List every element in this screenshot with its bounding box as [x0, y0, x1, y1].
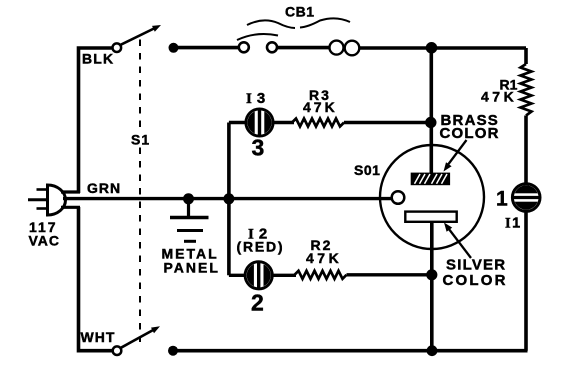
switch S1 dashed line	[139, 40, 141, 343]
wire left rail upper (BLK)	[79, 48, 112, 193]
svg-text:BLK: BLK	[82, 51, 114, 67]
plug prong top	[37, 188, 49, 191]
node dot bottom left	[168, 346, 178, 356]
wire GRN	[63, 197, 392, 200]
plug prong bottom	[37, 207, 49, 210]
brass contact (hatched)	[411, 173, 450, 186]
wire to lamp I3	[229, 121, 246, 124]
svg-text:PANEL: PANEL	[164, 260, 220, 276]
svg-text:CB1: CB1	[285, 4, 315, 20]
socket pin circle	[392, 191, 405, 204]
svg-text:S01: S01	[354, 162, 380, 178]
svg-text:COLOR: COLOR	[443, 272, 508, 289]
wire right rail to I1	[524, 116, 528, 184]
wire right rail top	[524, 48, 528, 64]
svg-text:1: 1	[496, 188, 508, 211]
wire mid rail lower	[430, 222, 434, 351]
node ground junction	[183, 193, 194, 204]
wire to CB1 contacts	[174, 46, 240, 50]
wire to lamp I2	[229, 274, 245, 277]
svg-text:SILVER: SILVER	[446, 257, 506, 274]
node dot after switch	[169, 43, 179, 53]
plug stub to BLK rail	[61, 190, 80, 193]
plug body	[48, 185, 66, 215]
switch S1 upper arm	[121, 28, 156, 45]
CB1 contact circle right	[267, 42, 277, 52]
wire lamp I2 to R2	[272, 274, 296, 277]
resistor R3	[292, 119, 344, 127]
CB1 brace arc upper	[247, 18, 350, 28]
wire bottom rail	[173, 349, 528, 353]
svg-text:COLOR: COLOR	[440, 125, 500, 142]
node branch junction	[223, 193, 234, 204]
svg-text:VAC: VAC	[29, 233, 61, 249]
resistor R2	[295, 271, 347, 279]
svg-text:2: 2	[251, 290, 264, 316]
switch S1 upper contact circle	[113, 43, 122, 52]
svg-text:3: 3	[252, 135, 265, 161]
wire mid rail upper	[429, 48, 433, 173]
wire branch rail	[227, 123, 231, 276]
silver contact	[405, 212, 456, 222]
lamp I2	[247, 263, 271, 287]
CB1 contact circle left	[239, 42, 249, 52]
label S1	[129, 131, 149, 147]
wire left rail lower (WHT)	[79, 207, 113, 351]
node R3 junction	[425, 117, 436, 128]
svg-text:S1: S1	[131, 132, 150, 148]
wire R3 to mid rail	[344, 121, 431, 124]
svg-text:WHT: WHT	[81, 329, 116, 345]
callout arrow to brass	[447, 140, 467, 166]
switch S1 lower arm	[121, 329, 155, 348]
switch S1 lower contact circle	[113, 346, 122, 355]
wire top to right rail	[359, 46, 526, 50]
wire between CB1 contacts and breaker	[278, 46, 331, 50]
svg-text:(RED): (RED)	[237, 239, 285, 255]
svg-text:47K: 47K	[481, 89, 517, 105]
wire lamp I3 to R3	[273, 121, 295, 124]
callout arrow to silver	[449, 229, 472, 259]
wire R2 to mid rail	[347, 273, 432, 276]
ground (metal panel)	[187, 199, 190, 216]
node top junction	[426, 42, 438, 54]
plug prong middle	[28, 198, 48, 201]
socket S01 circle	[380, 145, 484, 249]
resistor R1	[521, 64, 532, 116]
svg-text:GRN: GRN	[87, 180, 121, 196]
svg-text:I1: I1	[505, 216, 522, 232]
CB1 brace arc lower	[237, 34, 278, 40]
svg-text:47K: 47K	[306, 250, 342, 266]
wire right rail lower	[526, 212, 527, 351]
node R2 junction	[426, 269, 437, 280]
plug stub to WHT rail	[61, 206, 80, 209]
lamp I3	[248, 111, 272, 135]
svg-text:I3: I3	[246, 90, 270, 107]
lamp I1	[514, 185, 538, 209]
node bottom junction	[427, 345, 438, 356]
CB1 breaker circle right	[345, 41, 360, 56]
svg-text:47K: 47K	[303, 99, 338, 115]
CB1 breaker circle left	[330, 41, 344, 55]
